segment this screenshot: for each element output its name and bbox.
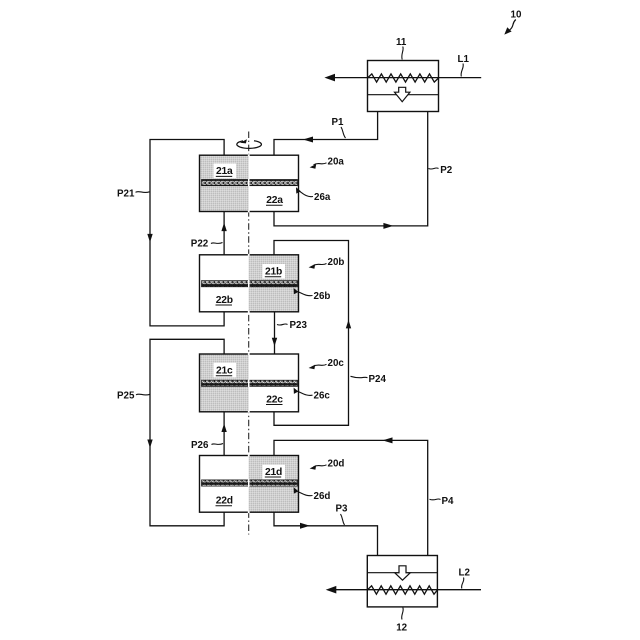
svg-text:P25: P25 (117, 391, 135, 402)
svg-text:21a: 21a (216, 166, 233, 177)
svg-text:26a: 26a (314, 192, 331, 203)
membrane 26c (202, 380, 298, 386)
label 26d with leader arrow (294, 487, 331, 502)
pipe P23 (vessel 20b bottom to vessel 20c top) (272, 312, 277, 354)
membrane 26b (202, 281, 298, 287)
svg-text:P1: P1 (332, 117, 345, 128)
pipe P2 (vessel 20a bottom to exchanger 11) (274, 112, 428, 229)
svg-text:26c: 26c (314, 391, 331, 402)
svg-text:P22: P22 (191, 239, 209, 250)
label L2 with squiggle (459, 568, 471, 589)
svg-text:10: 10 (511, 10, 522, 21)
svg-text:P3: P3 (336, 504, 349, 515)
pipe P25 (vessel 20c top loop to vessel 20d bottom) (147, 339, 224, 526)
svg-text:20b: 20b (328, 257, 345, 268)
svg-text:26d: 26d (314, 491, 331, 502)
svg-text:P21: P21 (117, 188, 135, 199)
heater zigzag in 11 (368, 74, 439, 82)
label P3 with squiggle (336, 504, 349, 526)
svg-text:20c: 20c (328, 358, 345, 369)
divider line in 11 (368, 94, 439, 96)
label P23 with squiggle (277, 320, 307, 331)
label 10 with leader arrow (504, 10, 522, 35)
membrane 26d (202, 480, 298, 486)
centerline gap in membrane 26c (248, 380, 250, 387)
label P4 with squiggle (430, 496, 455, 507)
svg-text:P23: P23 (290, 320, 308, 331)
pipe P4 (exchanger 12 to vessel 20d top) (274, 437, 428, 555)
svg-text:12: 12 (396, 623, 407, 634)
pipe P24 (vessel 20c bottom loop to vessel 20b top) (274, 241, 351, 426)
membrane 26a (202, 180, 298, 186)
adsorber half 21b shaded (249, 255, 299, 312)
line L2 through exchanger 12 (335, 589, 481, 591)
adsorber half 21c shaded (200, 354, 249, 412)
pipe P3 (vessel 20d bottom to exchanger 12) (274, 512, 378, 555)
svg-text:21d: 21d (265, 467, 282, 478)
svg-text:P4: P4 (442, 496, 455, 507)
centerline gaps in vessel edges (248, 353, 250, 355)
svg-text:22d: 22d (216, 496, 233, 507)
label 21c (214, 363, 237, 378)
label P21 with squiggle (117, 188, 150, 199)
label 21d (263, 465, 286, 480)
line L1 through exchanger 11 (334, 77, 481, 79)
vessel 20a (200, 154, 299, 212)
centerline gaps in vessel edges (248, 455, 250, 457)
svg-text:P24: P24 (369, 374, 387, 385)
label L1 with squiggle (458, 54, 470, 77)
L2 arrowhead (326, 586, 337, 594)
svg-text:11: 11 (396, 37, 407, 48)
label 12 with squiggle (396, 608, 407, 634)
pipe P22 (vessel 20b top to vessel 20a bottom) (221, 212, 226, 255)
label P2 with squiggle (429, 165, 453, 176)
label 20b with leader arrow (309, 257, 345, 269)
svg-text:P26: P26 (191, 440, 209, 451)
label P25 with squiggle (117, 391, 150, 402)
svg-text:P2: P2 (440, 165, 453, 176)
L1 arrowhead (324, 74, 335, 82)
heat exchanger 12 box (326, 556, 481, 607)
pipe P1 (exchanger 11 to vessel 20a top) (274, 112, 378, 156)
heat exchanger 11 box (324, 61, 481, 112)
svg-text:26b: 26b (314, 291, 331, 302)
svg-text:22b: 22b (216, 295, 233, 306)
heater zigzag in 12 (367, 586, 437, 594)
centerline gap in membrane 26d (248, 479, 250, 486)
label 11 with squiggle (396, 37, 407, 60)
adsorber half 21d shaded (249, 456, 299, 513)
label 26c with leader arrow (294, 388, 331, 402)
divider line in 12 (367, 572, 437, 574)
svg-text:20a: 20a (328, 157, 345, 168)
label 20a with leader arrow (310, 157, 345, 169)
adsorber half 21a shaded (200, 155, 249, 211)
label 21b (263, 264, 286, 279)
svg-text:21b: 21b (265, 267, 282, 278)
rotation axis dash-dot centerline (248, 132, 250, 535)
label 26b with leader arrow (294, 288, 331, 302)
centerline gaps in vessel edges (248, 154, 250, 156)
label P24 with squiggle (351, 374, 387, 385)
svg-text:22a: 22a (266, 195, 283, 206)
pipe P21 (vessel 20a top loop to vessel 20b bottom) (147, 140, 224, 326)
svg-text:21c: 21c (216, 366, 233, 377)
hollow down arrow in 12 (395, 566, 410, 580)
centerline gap in membrane 26a (248, 179, 250, 186)
label 20c with leader arrow (309, 358, 345, 369)
vessel 20b (200, 254, 299, 313)
hollow down arrow in 11 (395, 87, 410, 101)
svg-text:L2: L2 (459, 568, 471, 579)
centerline gap in membrane 26b (248, 280, 250, 287)
label P1 with squiggle (332, 117, 346, 138)
label 26a with leader arrow (296, 187, 331, 203)
svg-text:22c: 22c (266, 394, 283, 405)
label 21a (214, 164, 237, 179)
vessel 20d (200, 455, 299, 514)
label 20d with leader arrow (310, 459, 345, 470)
rotation arrow ellipse (237, 139, 262, 148)
vessel 20c (200, 353, 299, 413)
centerline gaps in vessel edges (248, 254, 250, 256)
svg-text:20d: 20d (328, 459, 345, 470)
label P22 with squiggle (191, 239, 223, 250)
label P26 with squiggle (191, 440, 223, 451)
pipe P26 (vessel 20d top to vessel 20c bottom) (221, 412, 226, 456)
